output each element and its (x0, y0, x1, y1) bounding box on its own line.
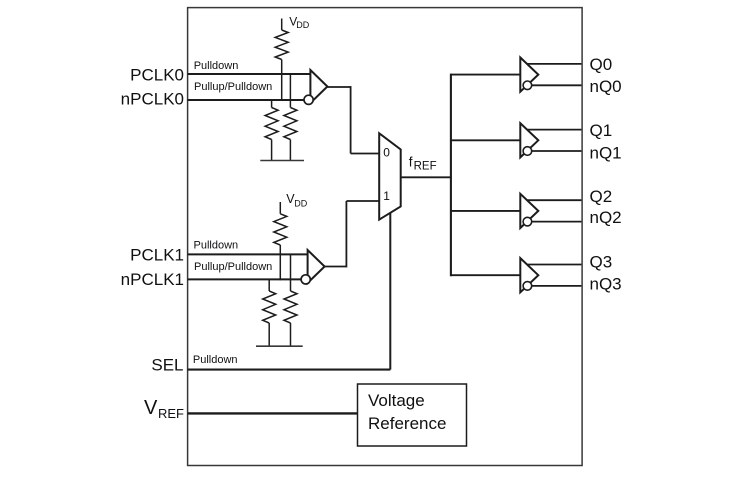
svg-text:nQ3: nQ3 (590, 275, 622, 294)
svg-text:Pulldown: Pulldown (193, 354, 238, 366)
svg-text:Q2: Q2 (590, 187, 613, 206)
svg-text:Voltage: Voltage (368, 391, 425, 410)
svg-text:Pulldown: Pulldown (194, 60, 239, 72)
svg-text:Q0: Q0 (590, 55, 613, 74)
svg-text:V: V (144, 397, 158, 419)
svg-text:nQ0: nQ0 (590, 77, 622, 96)
svg-text:1: 1 (383, 189, 390, 203)
svg-text:SEL: SEL (151, 356, 183, 375)
svg-text:Pullup/Pulldown: Pullup/Pulldown (194, 261, 272, 273)
svg-text:Pullup/Pulldown: Pullup/Pulldown (194, 81, 272, 93)
svg-text:nPCLK0: nPCLK0 (121, 89, 184, 108)
svg-text:nQ1: nQ1 (590, 143, 622, 162)
svg-text:Reference: Reference (368, 414, 446, 433)
svg-text:f: f (409, 155, 413, 170)
svg-text:0: 0 (383, 145, 390, 159)
svg-text:Pulldown: Pulldown (194, 239, 239, 251)
svg-text:REF: REF (414, 161, 437, 173)
svg-text:DD: DD (294, 198, 307, 208)
svg-text:DD: DD (296, 20, 309, 30)
svg-text:PCLK1: PCLK1 (130, 246, 184, 265)
svg-text:Q3: Q3 (590, 253, 613, 272)
svg-text:REF: REF (158, 406, 184, 421)
svg-text:nPCLK1: nPCLK1 (121, 270, 184, 289)
svg-text:Q1: Q1 (590, 121, 613, 140)
svg-text:PCLK0: PCLK0 (130, 66, 184, 85)
svg-text:nQ2: nQ2 (590, 208, 622, 227)
